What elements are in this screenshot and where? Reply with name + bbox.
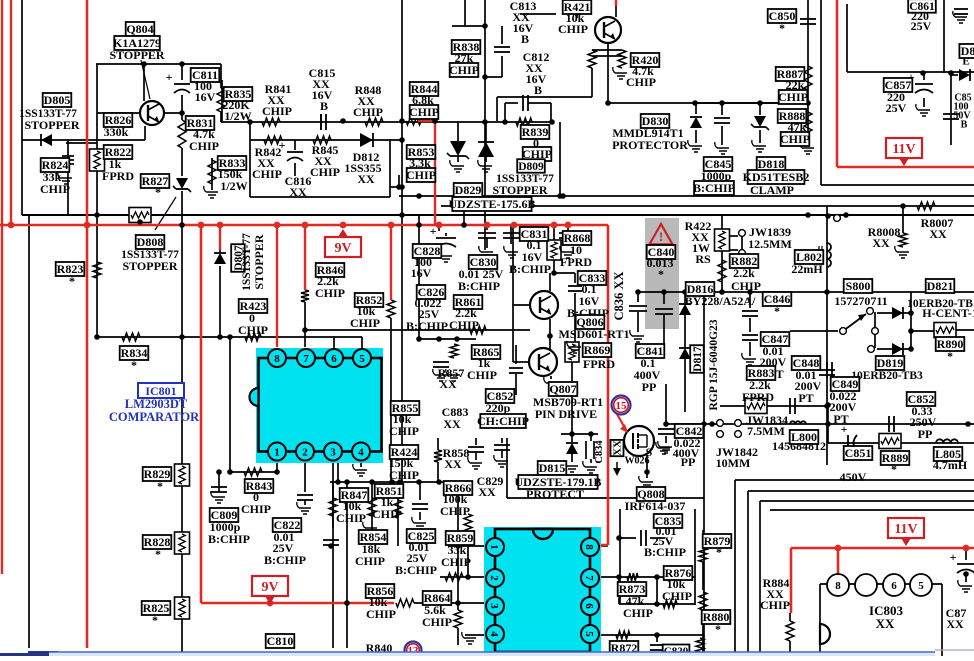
svg-text:D817: D817: [692, 346, 704, 372]
svg-text:COMPARATOR: COMPARATOR: [109, 410, 200, 424]
svg-text:BY228/A52A/: BY228/A52A/: [685, 294, 756, 308]
svg-text:6: 6: [583, 603, 595, 609]
svg-text:STOPPER: STOPPER: [109, 48, 164, 62]
svg-text:PROTECTOR: PROTECTOR: [612, 138, 688, 152]
svg-text:22mH: 22mH: [791, 262, 823, 276]
svg-text:10MM: 10MM: [716, 456, 751, 470]
svg-text:6: 6: [331, 353, 337, 365]
svg-text:1: 1: [274, 447, 280, 459]
svg-text:XX: XX: [443, 417, 461, 431]
svg-text:XX: XX: [357, 172, 375, 186]
svg-text:6: 6: [891, 580, 897, 592]
svg-text:STOPPER: STOPPER: [492, 183, 547, 197]
svg-text:16V: 16V: [411, 266, 432, 280]
svg-text:B:CHIP: B:CHIP: [693, 181, 735, 195]
svg-text:CHIP: CHIP: [760, 598, 790, 612]
svg-text:CHIP: CHIP: [440, 504, 470, 518]
svg-text:C810: C810: [267, 634, 294, 648]
svg-text:11V: 11V: [894, 522, 917, 537]
svg-text:C834: C834: [594, 440, 605, 464]
svg-text:CHIP: CHIP: [350, 316, 380, 330]
svg-text:D821: D821: [927, 279, 954, 293]
svg-text:5: 5: [359, 353, 365, 365]
svg-text:S800: S800: [846, 279, 871, 293]
svg-text:B: B: [320, 99, 328, 113]
svg-text:XX: XX: [612, 440, 624, 456]
svg-text:PROTECT: PROTECT: [526, 487, 584, 501]
svg-text:CHIP: CHIP: [626, 75, 656, 89]
svg-text:CHIP: CHIP: [262, 104, 292, 118]
svg-text:4.7mH: 4.7mH: [933, 458, 968, 472]
svg-text:15: 15: [616, 400, 628, 412]
svg-text:XX: XX: [872, 236, 890, 250]
svg-text:PP: PP: [918, 427, 933, 441]
svg-text:4: 4: [488, 631, 500, 637]
svg-text:R869: R869: [584, 343, 611, 357]
svg-text:CHIP: CHIP: [40, 182, 70, 196]
svg-text:B: B: [961, 119, 968, 130]
svg-text:C836 XX: C836 XX: [612, 272, 626, 321]
svg-text:*: *: [152, 613, 158, 627]
svg-text:S: S: [646, 445, 653, 459]
svg-text:*: *: [715, 622, 721, 636]
svg-text:Q807: Q807: [549, 382, 576, 396]
svg-text:CHIP: CHIP: [315, 286, 345, 300]
svg-text:CHIP: CHIP: [422, 615, 452, 629]
svg-text:B:CHIP: B:CHIP: [395, 563, 437, 577]
svg-text:B:CHIP: B:CHIP: [458, 279, 500, 293]
svg-text:PT: PT: [798, 391, 813, 405]
svg-text:MSD601-RT1: MSD601-RT1: [559, 327, 630, 341]
svg-text:STOPPER: STOPPER: [24, 118, 79, 132]
svg-text:D829: D829: [455, 183, 482, 197]
svg-text:8: 8: [835, 580, 841, 592]
svg-text:FPRD: FPRD: [742, 390, 774, 404]
svg-text:25V: 25V: [911, 19, 932, 33]
svg-text:D809: D809: [518, 161, 544, 173]
svg-text:+: +: [166, 70, 173, 84]
svg-text:CHIP: CHIP: [558, 22, 588, 36]
svg-text:B: B: [521, 32, 529, 46]
svg-text:D808: D808: [137, 235, 164, 249]
svg-text:*: *: [947, 349, 953, 363]
svg-text:3: 3: [488, 603, 500, 609]
svg-text:CHIP: CHIP: [467, 368, 497, 382]
svg-text:PP: PP: [642, 380, 657, 394]
svg-text:450V: 450V: [840, 470, 867, 484]
svg-text:R843: R843: [246, 479, 273, 493]
svg-text:XX: XX: [439, 377, 457, 391]
svg-text:!: !: [659, 229, 663, 244]
svg-text:XX: XX: [478, 485, 496, 499]
svg-text:7.5MM: 7.5MM: [747, 424, 785, 438]
svg-text:CHIP: CHIP: [780, 132, 810, 146]
svg-text:CHIP: CHIP: [389, 424, 419, 438]
svg-text:2: 2: [488, 575, 500, 581]
svg-text:RGP 15J-6040G23: RGP 15J-6040G23: [708, 319, 720, 410]
svg-text:B:CHIP: B:CHIP: [208, 532, 250, 546]
svg-text:5: 5: [918, 580, 924, 592]
svg-text:XX: XX: [946, 617, 964, 631]
svg-text:1/2W: 1/2W: [224, 109, 251, 123]
svg-text:*: *: [891, 462, 897, 476]
svg-text:CHIP: CHIP: [189, 139, 219, 153]
svg-text:B:CHIP: B:CHIP: [509, 262, 551, 276]
svg-text:2.2k: 2.2k: [733, 266, 755, 280]
svg-text:B:CHIP: B:CHIP: [264, 553, 306, 567]
svg-text:XX: XX: [929, 227, 947, 241]
svg-text:H-CENT-1: H-CENT-1: [922, 306, 974, 320]
svg-text:CHIP: CHIP: [366, 607, 396, 621]
svg-text:PP: PP: [681, 455, 696, 469]
svg-text:D805: D805: [44, 93, 71, 107]
svg-text:CHIP: CHIP: [389, 468, 419, 482]
svg-text:Q804: Q804: [126, 22, 153, 36]
svg-text:157270711: 157270711: [834, 294, 887, 308]
svg-text:CHIP: CHIP: [241, 502, 271, 516]
svg-text:CHIP: CHIP: [409, 105, 439, 119]
svg-text:CLAMP: CLAMP: [750, 183, 794, 197]
svg-text:8: 8: [274, 353, 280, 365]
svg-text:L800: L800: [791, 430, 817, 444]
svg-text:B:CHIP: B:CHIP: [406, 319, 448, 333]
svg-text:FPRD: FPRD: [102, 169, 134, 183]
svg-text:5: 5: [583, 631, 595, 637]
svg-text:FPRD: FPRD: [560, 255, 592, 269]
svg-text:D819: D819: [877, 356, 904, 370]
svg-text:10ERB20-TB3: 10ERB20-TB3: [851, 370, 923, 382]
svg-text:XX: XX: [444, 457, 462, 471]
svg-text:3: 3: [330, 447, 336, 459]
svg-text:16V: 16V: [195, 90, 216, 104]
svg-text:2: 2: [302, 447, 308, 459]
svg-text:CHIP: CHIP: [406, 168, 436, 182]
svg-text:CHIP: CHIP: [449, 63, 479, 77]
svg-text:CHIP: CHIP: [623, 606, 653, 620]
svg-text:STOPPER: STOPPER: [122, 259, 177, 273]
svg-text:CHIP: CHIP: [310, 165, 340, 179]
svg-text:E: E: [962, 56, 969, 68]
svg-text:8: 8: [583, 544, 595, 550]
svg-text:11V: 11V: [892, 142, 915, 157]
svg-text:CHIP: CHIP: [353, 105, 383, 119]
svg-text:*: *: [157, 479, 163, 493]
svg-text:*: *: [774, 304, 780, 318]
svg-text:7: 7: [303, 353, 309, 365]
svg-text:CHIP: CHIP: [662, 589, 692, 603]
svg-text:D815: D815: [539, 461, 566, 475]
svg-text:25V: 25V: [886, 101, 907, 115]
svg-text:CHIP: CHIP: [778, 90, 808, 104]
svg-text:1: 1: [488, 544, 500, 550]
svg-text:UDZSTE-175.6B: UDZSTE-175.6B: [448, 197, 535, 211]
svg-text:CHIP: CHIP: [441, 555, 471, 569]
svg-text:PIN DRIVE: PIN DRIVE: [535, 407, 597, 421]
svg-text:*: *: [658, 267, 664, 281]
svg-text:CHIP: CHIP: [252, 167, 282, 181]
svg-text:220p: 220p: [486, 401, 511, 415]
svg-text:*: *: [155, 185, 161, 199]
svg-text:12.5MM: 12.5MM: [748, 237, 792, 251]
svg-text:XX: XX: [289, 185, 307, 199]
svg-text:IRF614-037: IRF614-037: [625, 499, 686, 513]
svg-text:1/2W: 1/2W: [220, 179, 247, 193]
svg-text:*: *: [155, 547, 161, 561]
svg-text:330k: 330k: [104, 125, 129, 139]
svg-text:CHIP: CHIP: [238, 323, 268, 337]
svg-text:9V: 9V: [334, 241, 351, 256]
svg-text:CHIP: CHIP: [355, 554, 385, 568]
svg-text:CHIP: CHIP: [336, 511, 366, 525]
svg-text:CHIP: CHIP: [449, 318, 479, 332]
svg-text:LM2903DT: LM2903DT: [125, 397, 188, 411]
svg-text:XX: XX: [876, 616, 895, 631]
svg-text:PT: PT: [833, 412, 848, 426]
svg-text:FPRD: FPRD: [583, 357, 615, 371]
svg-text:*: *: [779, 21, 785, 35]
svg-text:CHIP: CHIP: [731, 279, 761, 293]
svg-text:B:CHIP: B:CHIP: [644, 545, 686, 559]
svg-text:*: *: [69, 274, 75, 288]
svg-text:*: *: [716, 545, 722, 559]
svg-text:CHIP: CHIP: [372, 507, 402, 521]
svg-text:+: +: [950, 550, 957, 564]
svg-text:STOPPER: STOPPER: [252, 234, 266, 289]
svg-text:B: B: [534, 83, 542, 97]
svg-text:C851: C851: [845, 446, 872, 460]
svg-text:7: 7: [583, 575, 595, 581]
svg-text:*: *: [131, 358, 137, 372]
svg-text:9V: 9V: [261, 580, 278, 595]
svg-text:CH:CHIP: CH:CHIP: [477, 414, 529, 428]
svg-text:D818: D818: [758, 157, 785, 171]
svg-text:IC801: IC801: [145, 384, 176, 398]
svg-text:RS: RS: [695, 252, 711, 266]
svg-text:KD51TESB2: KD51TESB2: [743, 170, 810, 184]
svg-text:4: 4: [358, 447, 364, 459]
